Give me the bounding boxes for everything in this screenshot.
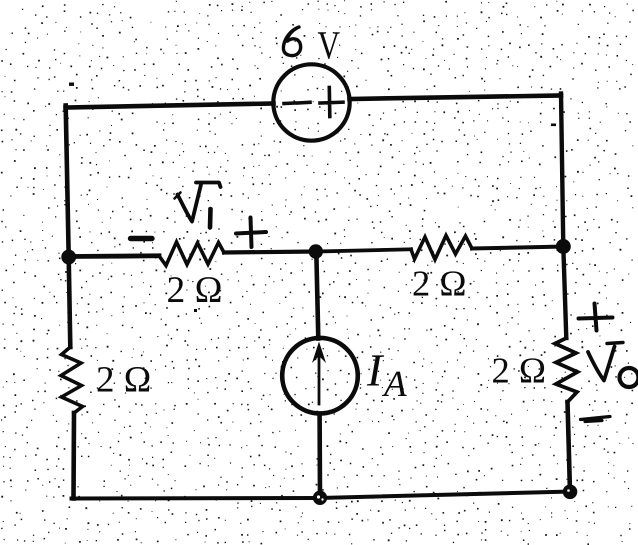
resistor R4 2 ohm right branch zigzag — [555, 338, 578, 402]
wire center branch lower (current source to node D) — [317, 414, 322, 499]
voltage source minus terminal mark — [284, 102, 310, 103]
svg-text:2 Ω: 2 Ω — [96, 360, 151, 401]
minus polarity mark of Vo — [581, 417, 611, 422]
svg-text:I: I — [366, 345, 385, 396]
wire right rail middle (node C to resistor R4) — [563, 247, 566, 339]
node D (bottom center junction, ring style) — [313, 491, 327, 505]
svg-text:2 Ω: 2 Ω — [412, 263, 467, 304]
stray scan speck — [69, 83, 74, 86]
current source U2 circle — [282, 338, 358, 414]
wire middle-left segment (node A to resistor R2) — [69, 253, 159, 258]
wire center branch upper (node B down to current source) — [316, 252, 318, 339]
wire bottom-right segment (node D to node E) — [320, 492, 570, 499]
wire left rail upper (top corner down to resistor R1) — [66, 106, 71, 348]
current source arrow head — [312, 342, 326, 364]
svg-text:A: A — [381, 364, 407, 405]
wire top-left horizontal (left corner to 6V source) — [66, 104, 274, 108]
wire left rail lower (R1 to bottom-left corner) — [71, 413, 76, 499]
node E (bottom right junction) — [563, 485, 578, 500]
plus polarity mark of V1 — [236, 218, 266, 248]
current source arrow shaft — [318, 351, 321, 404]
wire right rail lower (R4 to node E) — [568, 402, 571, 492]
resistor R2 2 ohm horizontal zigzag — [159, 242, 224, 266]
handwritten digit 6 of source value — [283, 27, 300, 56]
wire R3 to node C — [472, 247, 563, 249]
voltage source U1 (6 V) circle — [273, 64, 349, 140]
wire middle-right segment (node B to resistor R3) — [316, 249, 412, 251]
wire middle segment (R2 to node B) — [224, 252, 316, 253]
voltage source plus terminal mark — [320, 88, 343, 117]
wire top-right horizontal (6V source to right corner) — [350, 96, 562, 100]
wire right rail upper (top corner to node C) — [561, 94, 563, 247]
resistor R1 2 ohm left branch zigzag — [61, 347, 83, 413]
node C (right middle junction) — [556, 239, 571, 254]
handwritten label Vo (voltage across R4) — [588, 347, 615, 381]
handwritten label V1 (voltage across R2) — [178, 183, 221, 222]
svg-text:2 Ω: 2 Ω — [167, 270, 223, 311]
node B (center middle junction) — [309, 244, 323, 258]
svg-text:2 Ω: 2 Ω — [492, 350, 547, 391]
node A (left middle junction) — [61, 250, 76, 265]
resistor R3 2 ohm horizontal zigzag — [411, 236, 472, 260]
minus polarity mark of V1 — [131, 236, 153, 241]
svg-text:V: V — [317, 23, 340, 68]
plus polarity mark of Vo — [579, 304, 613, 331]
wire bottom-left segment (corner to node D) — [72, 496, 321, 501]
